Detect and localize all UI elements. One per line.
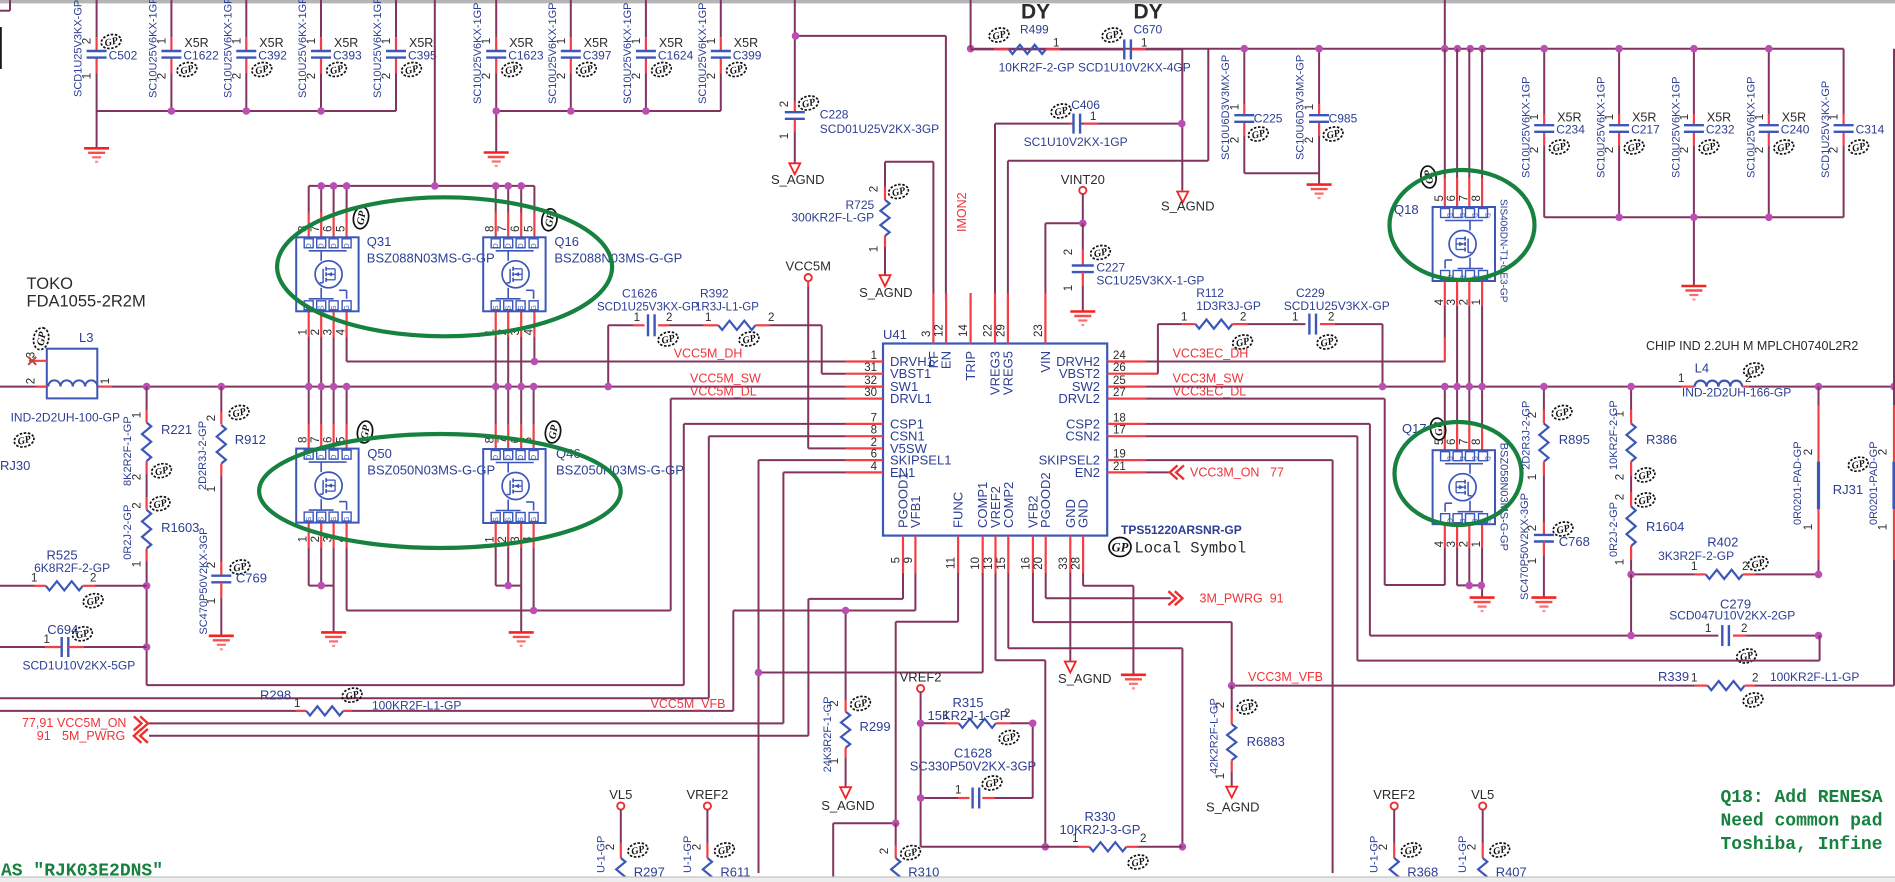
svg-text:VCC3M_SW: VCC3M_SW [1173, 372, 1244, 386]
svg-text:D: D [1446, 456, 1453, 461]
svg-text:31: 31 [864, 362, 877, 374]
svg-text:8: 8 [1471, 439, 1483, 445]
svg-text:SC470P50V2KX-3GP: SC470P50V2KX-3GP [198, 528, 210, 635]
ground C769 [209, 636, 234, 650]
svg-text:D: D [331, 243, 338, 248]
svg-text:30: 30 [864, 387, 877, 399]
ellipse highlight Q18 [1390, 170, 1535, 280]
U41 right pin stubs and numbers [1039, 350, 1146, 480]
svg-text:1: 1 [298, 329, 310, 335]
U41 bottom pin stubs and numbers [891, 472, 1091, 573]
svg-text:D: D [344, 243, 351, 248]
svg-text:1: 1 [634, 312, 640, 324]
capacitor C228 [779, 94, 939, 163]
svg-text:2: 2 [1615, 494, 1627, 500]
capacitor C694 [0, 622, 147, 673]
op-amp/controller U41 TPS51220ARSNR-GP box [883, 327, 1107, 536]
svg-text:EN2: EN2 [1075, 465, 1100, 480]
svg-text:L3: L3 [79, 330, 93, 345]
U41 left pin stubs and numbers [846, 350, 952, 480]
capacitor C670 [1060, 23, 1191, 75]
svg-text:SC10U6D3V3MX-GP: SC10U6D3V3MX-GP [1220, 55, 1232, 160]
svg-text:S_AGND: S_AGND [1058, 671, 1111, 686]
wire VFB2 route [1033, 573, 1232, 686]
resistor R499 [988, 23, 1075, 75]
svg-text:2: 2 [768, 312, 774, 324]
svg-text:1: 1 [31, 573, 37, 585]
svg-text:10KR2F-2-GP: 10KR2F-2-GP [1608, 400, 1620, 470]
svg-text:8: 8 [298, 437, 310, 443]
svg-text:15KR2J-1-GP: 15KR2J-1-GP [928, 708, 1009, 723]
svg-text:Q18: Q18 [1394, 202, 1419, 217]
svg-text:2D2R3J-2-GP: 2D2R3J-2-GP [1521, 401, 1533, 470]
svg-text:S: S [506, 305, 513, 310]
svg-text:D: D [518, 455, 525, 460]
ellipse highlight Q31 Q16 [277, 197, 612, 336]
transistor Q18 [1394, 195, 1509, 305]
svg-text:SCD1U10V2KX-4GP: SCD1U10V2KX-4GP [1078, 61, 1191, 75]
capacitor C397 [547, 3, 612, 105]
svg-text:IND-2D2UH-166-GP: IND-2D2UH-166-GP [1682, 386, 1791, 400]
text note Q18 green [1721, 788, 1883, 855]
wire C228 feeder / EN branch [795, 0, 946, 300]
svg-text:1: 1 [1471, 541, 1483, 547]
ground cap bank 1 [84, 148, 109, 162]
wire GND pin33 to S_AGND [1069, 573, 1071, 662]
svg-text:VCC5M: VCC5M [785, 259, 831, 274]
svg-text:6: 6 [1446, 195, 1458, 201]
text R315 labels [928, 695, 1009, 723]
svg-text:22: 22 [983, 324, 995, 337]
svg-text:18: 18 [1113, 412, 1126, 424]
wire VREF2 pin13 route [996, 573, 1046, 847]
svg-text:6: 6 [1446, 439, 1458, 445]
svg-text:R112: R112 [1196, 286, 1224, 300]
text VCC3M_VFB [1248, 670, 1323, 684]
svg-text:BSZ050N03MS-G-GP: BSZ050N03MS-G-GP [556, 463, 684, 478]
flag VCC5M_ON [22, 716, 148, 730]
power symbol S_AGND under R299 [821, 787, 874, 813]
wire Q46 source to ground [496, 548, 522, 632]
svg-text:C392: C392 [258, 49, 287, 63]
svg-text:1: 1 [829, 758, 841, 764]
svg-text:U41: U41 [883, 327, 907, 342]
svg-text:1D3R3J-GP: 1D3R3J-GP [1196, 299, 1261, 313]
svg-text:VCC5M_SW: VCC5M_SW [690, 372, 761, 386]
ground under C227 [1070, 312, 1095, 326]
transistor Q31 [296, 226, 494, 336]
resistor R1604 [1608, 491, 1684, 574]
junction dot COMP1 rail [755, 669, 763, 677]
resistor R330 [921, 809, 1183, 871]
svg-text:C393: C393 [333, 49, 362, 63]
svg-text:SC10U25V6KX-1GP: SC10U25V6KX-1GP [222, 0, 234, 98]
resistor R298 [260, 686, 461, 715]
svg-text:S: S [518, 517, 525, 522]
text TPS51220ARSNR-GP [1121, 523, 1242, 537]
svg-text:PGOOD2: PGOOD2 [1038, 472, 1053, 528]
wire VCC3M_SW net [1146, 305, 1894, 425]
svg-text:5: 5 [891, 557, 903, 563]
svg-text:D: D [518, 243, 525, 248]
svg-text:15: 15 [996, 557, 1008, 570]
svg-text:D: D [1446, 213, 1453, 218]
resistor R299 [822, 611, 891, 788]
svg-text:SC10U25V6KX-1GP: SC10U25V6KX-1GP [297, 0, 309, 98]
svg-text:S: S [493, 517, 500, 522]
resistor R1603 [122, 474, 199, 586]
svg-text:3: 3 [1446, 299, 1458, 305]
svg-text:C768: C768 [1559, 534, 1590, 549]
svg-text:EN: EN [939, 351, 954, 369]
transistor Q50 [296, 437, 495, 543]
stamp GP Q16 [540, 208, 559, 232]
wire COMP1 SKIPSEL1 rail [759, 460, 983, 873]
svg-text:C694: C694 [47, 622, 78, 637]
capacitor C395 [372, 0, 437, 98]
resistor R912 [197, 387, 266, 562]
svg-text:S_AGND: S_AGND [1206, 800, 1259, 815]
svg-text:2: 2 [869, 186, 881, 192]
svg-text:S: S [331, 305, 338, 310]
text AS RJK03E2DNS note [1, 862, 163, 882]
svg-text:D: D [1458, 456, 1465, 461]
transistor Q46 [483, 437, 684, 543]
svg-text:2: 2 [1140, 833, 1146, 845]
svg-text:CSN2: CSN2 [1065, 429, 1100, 444]
svg-text:BSZ088N03MS-G-GP: BSZ088N03MS-G-GP [367, 251, 495, 266]
svg-text:1: 1 [1181, 312, 1187, 324]
svg-text:8: 8 [871, 425, 877, 437]
svg-text:X5R: X5R [1782, 111, 1806, 125]
resistor R386 [1608, 400, 1677, 492]
capacitor C227 [1063, 223, 1204, 311]
svg-text:13: 13 [983, 557, 995, 570]
svg-text:42K2R2F-L-GP: 42K2R2F-L-GP [1209, 698, 1221, 774]
resistor R6883 [1209, 686, 1285, 787]
svg-text:77: 77 [1270, 466, 1284, 480]
svg-text:29: 29 [995, 324, 1007, 337]
ground right cap bank [1681, 286, 1706, 300]
svg-text:R895: R895 [1559, 432, 1590, 447]
ground C768 [1531, 598, 1556, 612]
svg-text:X5R: X5R [1707, 111, 1731, 125]
page bottom margin strip [0, 877, 1895, 882]
svg-text:VCC5M_DL: VCC5M_DL [690, 385, 757, 399]
svg-text:R299: R299 [860, 719, 891, 734]
wire VCC5M_DH net [347, 337, 846, 362]
net VL5 pull R407 [1457, 787, 1527, 882]
svg-text:0R0201-PAD-GP: 0R0201-PAD-GP [1792, 441, 1804, 525]
svg-text:C234: C234 [1556, 123, 1585, 137]
svg-text:COMP2: COMP2 [1001, 482, 1016, 528]
wire 5M_PWRG net [149, 573, 903, 736]
svg-text:2: 2 [1615, 474, 1627, 480]
svg-text:VREF2: VREF2 [686, 787, 728, 802]
resistor R112 [1181, 286, 1261, 351]
svg-text:CHIP IND 2.2UH M MPLCH0740L2R2: CHIP IND 2.2UH M MPLCH0740L2R2 [1646, 339, 1858, 353]
svg-text:2: 2 [310, 329, 322, 335]
svg-text:5: 5 [1434, 195, 1446, 201]
svg-text:SCD1U25V3KX-GP: SCD1U25V3KX-GP [1284, 299, 1390, 313]
resistor RJ31 0R0201 pad [1833, 49, 1894, 686]
capacitor C240 [1745, 77, 1810, 179]
svg-text:2: 2 [1240, 312, 1246, 324]
wire CSN2 net [1146, 436, 1820, 660]
svg-text:BSZ058N03MS-G-GP: BSZ058N03MS-G-GP [1497, 443, 1509, 551]
junction dots cap bank 1 bus [168, 107, 325, 115]
svg-text:SC10U25V6KX-1GP: SC10U25V6KX-1GP [372, 0, 384, 98]
svg-text:5: 5 [336, 226, 348, 232]
svg-text:4: 4 [336, 328, 348, 335]
svg-text:5M_PWRG: 5M_PWRG [62, 729, 125, 743]
svg-text:32: 32 [864, 375, 877, 387]
svg-text:25: 25 [1113, 375, 1126, 387]
power symbol S_AGND under C228 [771, 163, 824, 187]
capacitor C232 [1670, 77, 1735, 179]
wire VBST2 loop [1146, 324, 1182, 374]
ground Q46 [509, 632, 534, 646]
svg-text:3: 3 [1446, 541, 1458, 547]
wire cap bank 2 feeders and bus [496, 0, 721, 152]
svg-text:1: 1 [298, 536, 310, 542]
svg-text:C227: C227 [1096, 261, 1125, 275]
wire COMP2 route [1008, 573, 1182, 847]
svg-text:C769: C769 [236, 570, 267, 585]
svg-text:C1624: C1624 [658, 49, 694, 63]
ground C225 C985 [1307, 185, 1332, 199]
wire CSP2 net [1146, 424, 1718, 636]
svg-text:D: D [344, 455, 351, 460]
junction dot Q16 gate on DH [531, 358, 539, 366]
capacitor C768 [1519, 493, 1590, 600]
svg-text:DRVL2: DRVL2 [1058, 391, 1100, 406]
svg-text:Q31: Q31 [367, 234, 392, 249]
svg-text:SCD1U25V3KX-GP: SCD1U25V3KX-GP [597, 302, 699, 314]
resistor R310 [879, 823, 939, 882]
svg-text:SC1U25V3KX-1-GP: SC1U25V3KX-1-GP [1096, 274, 1204, 288]
svg-text:D: D [1484, 213, 1491, 218]
ellipse highlight Q50 Q46 [259, 434, 621, 548]
svg-text:DY: DY [1021, 1, 1050, 24]
svg-text:SCD1U10V2KX-5GP: SCD1U10V2KX-5GP [23, 659, 136, 673]
text TOKO FDA1055-2R2M [27, 275, 146, 311]
svg-text:C397: C397 [583, 49, 612, 63]
capacitor C392 [222, 0, 287, 98]
red pin stubs Q17 [1445, 425, 1482, 548]
svg-text:6: 6 [323, 437, 335, 443]
svg-text:G: G [344, 305, 351, 310]
capacitor C1623 [472, 3, 544, 105]
svg-text:R386: R386 [1646, 432, 1677, 447]
resistor R339 [1658, 669, 1859, 709]
svg-text:1: 1 [1527, 474, 1539, 480]
svg-text:C1622: C1622 [183, 49, 219, 63]
wire VCC5M_DL net [347, 399, 846, 611]
svg-text:1: 1 [131, 561, 143, 567]
inductor L3 [11, 327, 120, 425]
wire VBST1 from R392 [770, 325, 846, 373]
svg-text:IMON2: IMON2 [955, 192, 969, 232]
svg-text:4: 4 [1434, 298, 1446, 305]
svg-text:S: S [331, 516, 338, 521]
svg-text:SC10U25V6KX-1GP: SC10U25V6KX-1GP [1521, 77, 1533, 179]
svg-text:S: S [319, 305, 326, 310]
svg-text:7: 7 [871, 412, 877, 424]
svg-text:VIN: VIN [1038, 351, 1053, 373]
svg-text:VCC3M_ON: VCC3M_ON [1190, 466, 1259, 480]
svg-text:G: G [531, 305, 538, 310]
wire top-left corner stub [0, 0, 10, 11]
svg-text:14: 14 [958, 324, 970, 337]
junction dots drain bus [317, 182, 525, 190]
svg-text:26: 26 [1113, 362, 1126, 374]
U41 top pin stubs and numbers [921, 293, 1053, 395]
flag VCC3M_ON [1170, 465, 1284, 479]
svg-text:X5R: X5R [1557, 111, 1581, 125]
svg-text:1: 1 [1292, 312, 1298, 324]
capacitor C769 [198, 528, 267, 636]
svg-text:VREG5: VREG5 [1000, 351, 1015, 395]
svg-text:1: 1 [1803, 524, 1815, 530]
svg-text:D: D [1458, 213, 1465, 218]
wire VIN rail [971, 0, 1844, 286]
wire EN2 net [1146, 471, 1170, 473]
svg-text:R912: R912 [235, 432, 266, 447]
svg-text:D: D [531, 243, 538, 248]
svg-text:SC10U25V6KX-1GP: SC10U25V6KX-1GP [472, 3, 484, 105]
svg-text:2: 2 [1458, 299, 1470, 305]
svg-text:10: 10 [970, 557, 982, 570]
red pin stubs Q16 [496, 213, 535, 338]
svg-text:300KR2F-L-GP: 300KR2F-L-GP [791, 211, 874, 225]
svg-text:S_AGND: S_AGND [859, 285, 912, 300]
resistor R725 [791, 182, 909, 274]
svg-text:SC10U25V6KX-1GP: SC10U25V6KX-1GP [147, 0, 159, 98]
svg-text:1: 1 [1215, 773, 1227, 779]
red pin stubs Q50 [309, 424, 347, 548]
capacitor C1624 [622, 3, 694, 105]
svg-text:2: 2 [90, 573, 96, 585]
net VCC5M [785, 259, 845, 449]
svg-text:R221: R221 [161, 422, 192, 437]
svg-text:2: 2 [1063, 249, 1075, 255]
svg-text:C240: C240 [1781, 123, 1810, 137]
stamp GP Q31 [352, 206, 371, 230]
wire VCC3EC_DL net [1146, 399, 1445, 585]
capacitor C314 [1820, 81, 1885, 178]
svg-text:1: 1 [779, 133, 791, 139]
svg-text:2: 2 [131, 474, 143, 480]
svg-text:C406: C406 [1071, 98, 1100, 112]
svg-text:2: 2 [25, 378, 37, 384]
svg-text:GND: GND [1076, 499, 1091, 528]
capacitor C502 [73, 0, 138, 97]
stamp GP Q50 [356, 420, 375, 444]
svg-text:C232: C232 [1706, 123, 1735, 137]
no-connect L3 pin 3 [28, 357, 36, 365]
ellipse highlight Q17 [1395, 422, 1522, 525]
net VINT20 [1045, 172, 1104, 293]
svg-text:2: 2 [310, 536, 322, 542]
svg-text:C229: C229 [1296, 286, 1325, 300]
wire VREG5 top loop [971, 0, 1209, 293]
svg-text:VFB1: VFB1 [908, 495, 923, 528]
wire cap bank 1 feeders and bus [97, 0, 396, 148]
svg-text:R499: R499 [1020, 23, 1049, 37]
svg-text:R1603: R1603 [161, 520, 199, 535]
wire R315 C1628 rails [921, 692, 1033, 847]
svg-text:1: 1 [705, 312, 711, 324]
capacitor C229 [1248, 286, 1390, 351]
wire CSP1 sense rail [147, 424, 846, 685]
svg-text:1: 1 [1615, 559, 1627, 565]
svg-text:7: 7 [1458, 195, 1470, 201]
svg-text:1: 1 [1705, 623, 1711, 635]
capacitor C279 [1669, 597, 1818, 666]
svg-text:11: 11 [946, 557, 958, 569]
svg-text:D: D [506, 243, 513, 248]
svg-text:4: 4 [1434, 540, 1446, 547]
svg-text:G: G [344, 516, 351, 521]
svg-text:D: D [506, 455, 513, 460]
stamp GP local symbol [1109, 538, 1246, 558]
junction dot R299 on VFB row [842, 607, 850, 615]
text VCC3EC_DL [1173, 385, 1247, 399]
svg-text:2: 2 [1803, 449, 1815, 455]
svg-text:BSZ050N03MS-G-GP: BSZ050N03MS-G-GP [367, 463, 495, 478]
junction dot Q50 source bus [317, 582, 325, 590]
svg-text:1: 1 [485, 536, 497, 542]
svg-text:C1623: C1623 [508, 49, 544, 63]
svg-text:2: 2 [1458, 541, 1470, 547]
svg-text:0R0201-PAD-GP: 0R0201-PAD-GP [1868, 441, 1880, 525]
svg-text:C399: C399 [733, 49, 762, 63]
svg-text:S: S [493, 305, 500, 310]
text IMON2 [955, 192, 969, 232]
svg-text:D: D [493, 455, 500, 460]
svg-text:L4: L4 [1695, 361, 1709, 376]
wire Q17 source to ground [1457, 548, 1482, 597]
svg-text:S_AGND: S_AGND [821, 798, 874, 813]
resistor R402 [1631, 535, 1818, 580]
svg-text:23: 23 [1033, 324, 1045, 337]
svg-text:Need common pad: Need common pad [1721, 812, 1883, 832]
svg-text:1: 1 [1471, 299, 1483, 305]
wire SKIPSEL2 net [1146, 460, 1333, 873]
svg-text:3M_PWRG: 3M_PWRG [1200, 592, 1263, 606]
svg-text:VCC5M_DH: VCC5M_DH [674, 347, 743, 361]
text VCC5M_DL [690, 385, 757, 399]
svg-text:1: 1 [1141, 38, 1147, 50]
stamp GP Q17 [1429, 417, 1448, 441]
svg-text:D: D [493, 243, 500, 248]
svg-text:0R2J-2-GP: 0R2J-2-GP [122, 505, 134, 560]
junction dot VCC3M_VFB [1228, 682, 1236, 690]
text RJ30 [0, 431, 35, 473]
text VCC5M_VFB [651, 697, 726, 711]
transistor Q17 [1402, 421, 1509, 551]
power symbol S_AGND under R725 [859, 275, 912, 300]
junction dot CSP2 C279 row [1627, 632, 1635, 640]
wire C229 to SW2 [1335, 324, 1383, 387]
svg-text:2: 2 [497, 536, 509, 542]
junction dots R402 row [1627, 571, 1822, 579]
svg-text:SC330P50V2KX-3GP: SC330P50V2KX-3GP [910, 758, 1036, 773]
svg-text:Local Symbol: Local Symbol [1135, 540, 1247, 558]
svg-text:1: 1 [1053, 38, 1059, 50]
svg-text:7: 7 [1458, 439, 1470, 445]
